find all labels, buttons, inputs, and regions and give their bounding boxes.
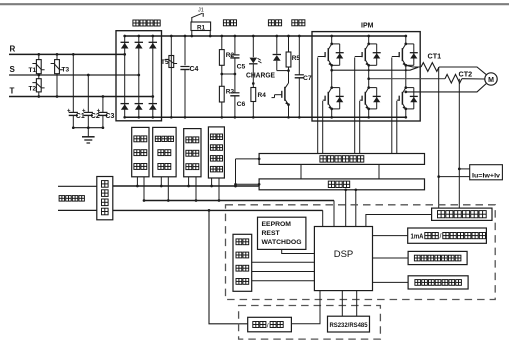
transistor IPM top IGBT 2 bbox=[355, 43, 381, 67]
svg-text:T3: T3 bbox=[62, 67, 70, 74]
svg-text:R1: R1 bbox=[197, 24, 206, 31]
svg-text:J1: J1 bbox=[198, 8, 204, 14]
box: opto isolation (CJK) bbox=[259, 179, 424, 190]
wire: DSP to open collector box bbox=[373, 257, 409, 259]
svg-text:T1: T1 bbox=[29, 67, 37, 74]
svg-text:RS232/RS485: RS232/RS485 bbox=[330, 322, 368, 329]
motor M bbox=[485, 73, 497, 85]
wire: DC bus input top bbox=[58, 185, 97, 187]
resistor R3 bbox=[219, 74, 234, 117]
svg-text:EEPROM: EEPROM bbox=[262, 221, 292, 228]
wire: supply rail 2 bbox=[144, 200, 334, 202]
wire: EEPROM to DSP bbox=[282, 249, 315, 253]
wire: IPM column 2 emitter to DC- bbox=[368, 109, 370, 117]
wire: block pins bbox=[136, 177, 138, 186]
rectifier diode column 2 top diode bbox=[135, 35, 143, 118]
capacitor C4 bbox=[180, 36, 198, 117]
capacitor C3 bbox=[97, 97, 115, 128]
svg-text:WATCHDOG: WATCHDOG bbox=[262, 239, 302, 246]
svg-text:1mA: 1mA bbox=[411, 234, 424, 241]
svg-text:C4: C4 bbox=[190, 66, 199, 73]
svg-text:DSP: DSP bbox=[334, 249, 354, 260]
wire: C1-C3 common rail bbox=[73, 127, 103, 129]
wire: R2/C5 mid rail bbox=[222, 73, 235, 75]
LED charge indicator bbox=[249, 36, 261, 85]
wire: supply rail 3 bbox=[113, 209, 323, 211]
wire: gate drive pair column 3 bbox=[391, 57, 393, 153]
wire: keyboard feed bbox=[209, 210, 248, 323]
current transformer CT1 bbox=[421, 52, 441, 72]
rectifier diode column 1 bottom diode bbox=[121, 104, 129, 119]
dashed keyboard boundary bbox=[239, 306, 381, 340]
wire: DSP to keyboard bbox=[291, 291, 320, 324]
box: residual voltage detect circuit (CJK) bbox=[184, 129, 201, 177]
svg-text:+: + bbox=[97, 109, 101, 115]
svg-text:R: R bbox=[10, 45, 16, 54]
svg-text:+: + bbox=[67, 109, 71, 115]
transistor IPM bottom IGBT 3 bbox=[397, 86, 418, 110]
svg-text:+: + bbox=[82, 109, 86, 115]
box: current signal processing (CJK) bbox=[432, 208, 492, 220]
wire: IPM column 1 emitter to DC- bbox=[331, 109, 333, 117]
wire: brake diode/R5 junction bbox=[277, 70, 289, 72]
diode brake freewheel bbox=[273, 36, 281, 71]
IPM box bbox=[312, 32, 420, 121]
svg-text:S: S bbox=[10, 65, 16, 74]
wire: IPM column 3 collector feed bbox=[405, 36, 407, 44]
rectifier bridge box bbox=[116, 31, 162, 121]
svg-text:CHARGE: CHARGE bbox=[246, 72, 275, 79]
wire: DC- bottom bus bbox=[125, 116, 406, 118]
wire phase T bbox=[9, 96, 153, 98]
svg-text:R3: R3 bbox=[226, 89, 235, 96]
label: brake (CJK) bbox=[268, 20, 281, 26]
svg-text:C7: C7 bbox=[303, 75, 312, 82]
relay contact J1 bbox=[192, 8, 204, 23]
label: snubber (CJK) bbox=[292, 20, 305, 26]
rectifier diode column 1 top diode bbox=[121, 35, 129, 118]
label: rectifier module (CJK) bbox=[133, 20, 160, 26]
wire: IPM column 3 emitter to DC- bbox=[405, 109, 407, 117]
transistor brake IGBT bbox=[272, 71, 290, 118]
svg-text:T5: T5 bbox=[161, 59, 169, 66]
varistor T3 bbox=[51, 54, 70, 96]
resistor R5 bbox=[286, 36, 300, 71]
box: 1mA analog display bbox=[408, 228, 487, 243]
svg-text:REST: REST bbox=[262, 230, 281, 237]
capacitor C6 bbox=[230, 74, 245, 117]
wire: gate drive pair column 1 bbox=[317, 57, 319, 153]
svg-text:Iu=Iw+Iv: Iu=Iw+Iv bbox=[472, 172, 500, 179]
ground bbox=[82, 128, 95, 143]
resistor R2 bbox=[219, 36, 234, 74]
varistor T1 bbox=[29, 54, 45, 75]
box: fault relay output (CJK) bbox=[408, 276, 468, 289]
svg-text:CT2: CT2 bbox=[459, 69, 473, 78]
transistor IPM top IGBT 1 bbox=[318, 43, 344, 67]
wire: CT2 to Iu box bbox=[459, 168, 469, 170]
wire: phase U output (top) bbox=[406, 65, 421, 67]
wire phase S bbox=[9, 74, 139, 76]
wire: IPM column 3 midpoint leg bbox=[405, 65, 407, 87]
box EEPROM REST WATCHDOG bbox=[258, 217, 306, 249]
label: DC bus (CJK) bbox=[59, 196, 84, 202]
rectifier diode column 3 top diode bbox=[149, 35, 157, 118]
box DSP bbox=[314, 227, 372, 291]
capacitor C2 bbox=[82, 75, 100, 128]
svg-text:IPM: IPM bbox=[361, 23, 374, 30]
wire: phase V output (middle) bbox=[369, 78, 445, 80]
wire: opto outputs to DSP bbox=[345, 190, 347, 227]
wire: DC bus input bottom bbox=[58, 209, 97, 211]
svg-text:T2: T2 bbox=[29, 86, 37, 93]
wire: protection left stub loop bbox=[234, 158, 260, 188]
svg-text:CT1: CT1 bbox=[428, 52, 442, 61]
box RS232/RS485 bbox=[328, 316, 370, 332]
wire: IPM column 2 collector feed bbox=[368, 36, 370, 44]
box: contactor drive circuit (CJK) bbox=[153, 127, 176, 176]
capacitor C1 bbox=[67, 54, 85, 127]
svg-text:/: / bbox=[267, 322, 269, 329]
wire: DSP to fault relay box bbox=[373, 281, 409, 283]
page top rule bbox=[0, 3, 509, 5]
current transformer CT2 bbox=[445, 69, 472, 83]
capacitor C5 bbox=[230, 36, 245, 74]
svg-text:C5: C5 bbox=[237, 63, 246, 70]
wire: IPM column 1 midpoint leg bbox=[331, 65, 333, 87]
wire: phase V to motor bbox=[462, 78, 485, 80]
box: fan drive circuit (CJK) bbox=[132, 127, 149, 176]
svg-text:R4: R4 bbox=[258, 92, 267, 99]
wire: CT1 secondary down bbox=[438, 67, 440, 208]
box: keyboard/display (CJK) bbox=[248, 317, 292, 332]
capacitor C7 bbox=[295, 36, 312, 117]
box: external control terminal input (CJK) bbox=[233, 234, 252, 291]
wire: gate drive pair column 2 bbox=[354, 57, 356, 153]
wire: DSP to RS232 pair bbox=[341, 291, 343, 317]
label: filter (CJK) bbox=[223, 20, 236, 26]
wire: CT1 to Iu box bbox=[439, 176, 470, 178]
box: switching power supply (CJK, vertical) bbox=[97, 177, 113, 220]
wire: DC+ top bus bbox=[125, 35, 406, 37]
wire: ext terminals to DSP x3 bbox=[252, 261, 315, 263]
wire: IPM column 1 collector feed bbox=[331, 36, 333, 44]
wire: DSP to 1mA box bbox=[373, 235, 408, 237]
svg-text:M: M bbox=[488, 77, 494, 84]
wire: phase U stub from column1 bbox=[332, 67, 418, 70]
wire: CT2 secondary down bbox=[458, 79, 460, 208]
wire: phase W output (bottom) bbox=[406, 84, 486, 92]
resistor R4 bbox=[251, 84, 266, 118]
resistor R1 bbox=[191, 22, 211, 36]
svg-text:C3: C3 bbox=[105, 113, 114, 120]
wire: connector left 2 bbox=[378, 164, 380, 179]
wire: connector left 1 bbox=[300, 164, 302, 179]
rectifier diode column 2 bottom diode bbox=[135, 104, 143, 119]
svg-text:C6: C6 bbox=[237, 101, 246, 108]
rectifier diode column 3 bottom diode bbox=[149, 104, 157, 119]
wire: supply rail 1 bbox=[113, 185, 259, 187]
dashed control-board boundary bbox=[226, 205, 496, 300]
transistor IPM top IGBT 3 bbox=[392, 43, 418, 67]
box: drive protection circuit (CJK) bbox=[259, 154, 424, 165]
transistor IPM bottom IGBT 2 bbox=[360, 86, 381, 110]
wire phase R bbox=[9, 53, 125, 55]
svg-text:T: T bbox=[10, 87, 15, 96]
svg-text:/: / bbox=[440, 234, 442, 241]
varistor T2 bbox=[29, 75, 45, 97]
box: open collector output (CJK) bbox=[408, 251, 467, 264]
transistor IPM bottom IGBT 1 bbox=[323, 86, 344, 110]
wire: current signal proc to DSP bbox=[366, 215, 432, 227]
wire: rail 3 drop to DSP bbox=[322, 210, 324, 226]
wire: rail 2 drop to DSP bbox=[333, 201, 335, 227]
box Iu=Iw+Iv bbox=[470, 165, 503, 180]
wire: IPM column 2 midpoint leg bbox=[368, 65, 370, 87]
varistor T5 bbox=[161, 36, 177, 117]
wire: phase U to motor bbox=[439, 67, 486, 75]
box: phase-loss voltage detect circuit (CJK) bbox=[208, 127, 224, 178]
